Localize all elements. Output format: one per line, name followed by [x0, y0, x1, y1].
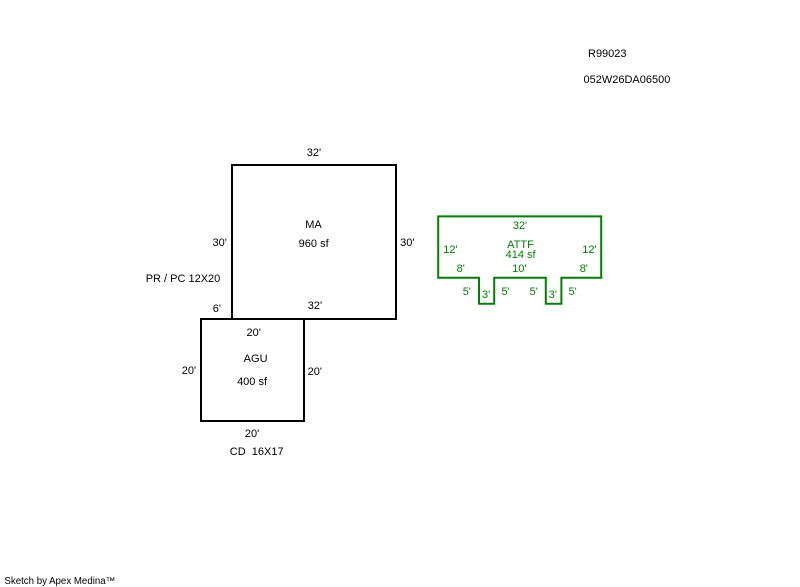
building AGU outline: [200, 318, 305, 422]
dimension 12' ATTF right: [582, 245, 596, 256]
dimension 30' MA left: [213, 238, 227, 249]
dimension 8' ATTF lower-left: [457, 264, 465, 275]
label ATTF: [507, 240, 534, 251]
label CD 16X17: [230, 447, 284, 458]
label PR / PC 12X20: [146, 274, 221, 285]
dimension 6': [213, 304, 221, 315]
dimension 3' tab2 bottom: [549, 290, 557, 301]
footer Sketch by Apex Medina: [4, 577, 115, 587]
label 414 sf: [506, 250, 536, 261]
label 960 sf: [299, 239, 329, 250]
label 400 sf: [237, 377, 267, 388]
parcel id R99023: [588, 49, 627, 60]
dimension 10' ATTF lower-middle: [512, 264, 526, 275]
dimension 8' ATTF lower-right: [580, 264, 588, 275]
dimension 32' ATTF top: [513, 221, 527, 232]
dimension 32' MA bottom: [308, 301, 322, 312]
label MA: [305, 220, 322, 231]
parcel id 052W26DA06500: [584, 75, 671, 86]
dimension 20' AGU top: [247, 328, 261, 339]
dimension 5' tab1 left side: [463, 287, 471, 298]
dimension 20' AGU right: [308, 367, 322, 378]
dimension 5' tab2 left side: [530, 287, 538, 298]
building MA outline: [231, 164, 397, 320]
dimension 32' MA top: [307, 148, 321, 159]
dimension 20' AGU left: [182, 366, 196, 377]
dimension 30' MA right: [400, 238, 414, 249]
dimension 5' tab1 right side: [501, 287, 509, 298]
dimension 20' AGU bottom: [245, 429, 259, 440]
dimension 5' tab2 right side: [568, 287, 576, 298]
dimension 12' ATTF left: [443, 245, 457, 256]
label AGU: [244, 354, 268, 365]
dimension 3' tab1 bottom: [482, 290, 490, 301]
